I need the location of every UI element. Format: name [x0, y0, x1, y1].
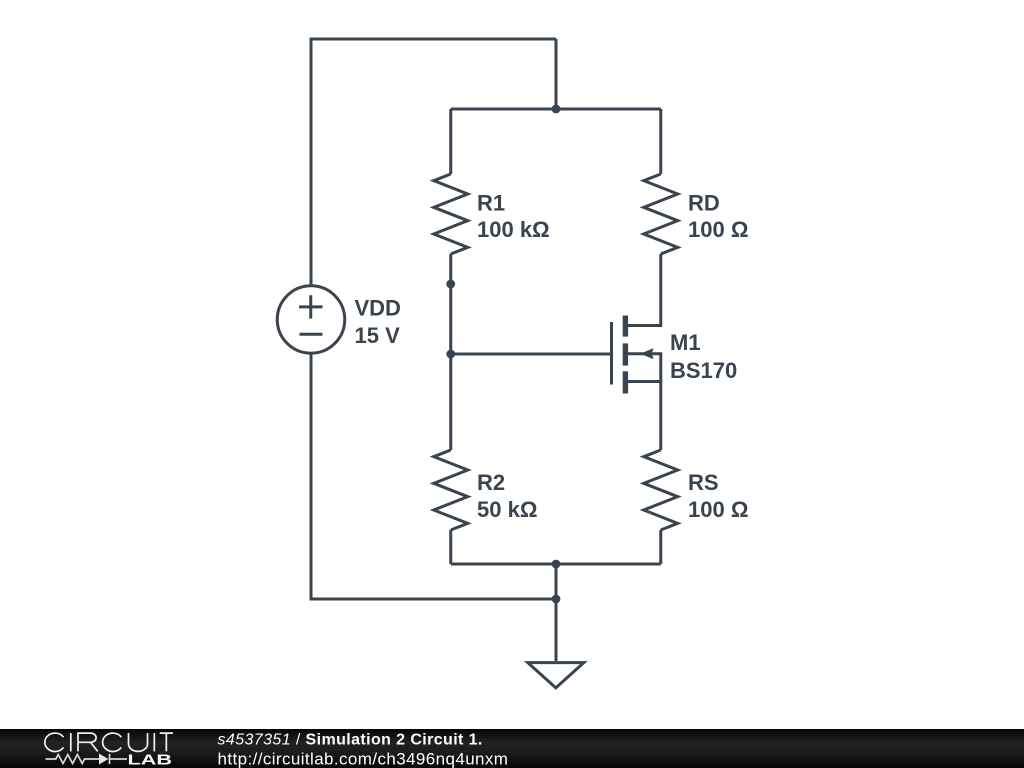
transistor M1 body wire [628, 354, 661, 382]
resistor R2 [434, 450, 468, 530]
svg-text:http://circuitlab.com/ch3496nq: http://circuitlab.com/ch3496nq4unxm [218, 749, 509, 768]
svg-text:VDD: VDD [355, 296, 401, 321]
junction dot node bottom rail [552, 560, 561, 569]
svg-text:100 Ω: 100 Ω [688, 217, 748, 242]
svg-text:100 Ω: 100 Ω [688, 497, 748, 522]
svg-text:RS: RS [688, 470, 719, 495]
resistor RD [644, 174, 678, 254]
wire source to RS top [628, 382, 661, 451]
svg-text:R1: R1 [477, 191, 505, 216]
junction dot node R1 bottom [446, 280, 455, 289]
wire R1 top lead [449, 109, 452, 174]
wire RD top lead [659, 109, 662, 174]
transistor M1 body arrow head [640, 348, 653, 359]
resistor R1 [434, 174, 468, 254]
logo C2 [103, 733, 122, 751]
wire left vertical from V1 minus to bottom rail [310, 353, 313, 601]
svg-text:R2: R2 [477, 470, 505, 495]
svg-text:100 kΩ: 100 kΩ [477, 217, 550, 242]
logo I1 [70, 733, 72, 751]
transistor M1 drain stub [626, 324, 661, 327]
logo CIRCUIT text [45, 733, 173, 751]
transistor M1 source stub [626, 380, 661, 383]
resistor RS [644, 450, 678, 530]
svg-text:LAB: LAB [128, 753, 173, 768]
logo U [129, 733, 148, 751]
wire horizontal rail y109 [451, 108, 661, 111]
wire top horizontal VDD rail [311, 38, 556, 41]
logo diode triangle [99, 754, 108, 765]
wire RD bottom to drain [628, 254, 661, 326]
wire R2 bottom lead [449, 530, 452, 564]
ground symbol [528, 663, 584, 688]
wire bottom rail y564 [451, 563, 661, 566]
svg-text:M1: M1 [670, 330, 701, 355]
svg-text:15 V: 15 V [355, 323, 401, 348]
junction dot node ground rail [552, 595, 561, 604]
svg-text:BS170: BS170 [670, 358, 737, 383]
wire RS bottom lead [659, 530, 662, 564]
wire node column between rails [555, 564, 558, 599]
wire gate horizontal [451, 353, 612, 356]
transistor M1 gate line [610, 322, 613, 385]
V1 plus sign [299, 295, 323, 318]
logo C1 [45, 733, 64, 751]
voltage source V1 circle [277, 286, 345, 354]
svg-text:50 kΩ: 50 kΩ [477, 497, 537, 522]
logo T [160, 733, 173, 751]
wire left vertical from top rail to V1 plus [310, 38, 313, 287]
V1 minus sign [300, 333, 323, 336]
wire ground stem [555, 599, 558, 661]
logo resistor-diode squiggle [46, 754, 128, 764]
wire R1 bottom to gate node to R2 top [449, 254, 452, 450]
junction dot node VDD rail [552, 105, 561, 114]
junction dot node gate [446, 350, 455, 359]
logo R [78, 733, 98, 751]
wire node column top vertical [555, 39, 558, 109]
wire bottom return rail y598.5 [311, 598, 556, 601]
transistor M1 channel bars [623, 316, 628, 337]
svg-text:RD: RD [688, 191, 720, 216]
logo I2 [153, 733, 155, 751]
svg-text:s4537351 / Simulation 2 Circui: s4537351 / Simulation 2 Circuit 1. [218, 732, 483, 749]
